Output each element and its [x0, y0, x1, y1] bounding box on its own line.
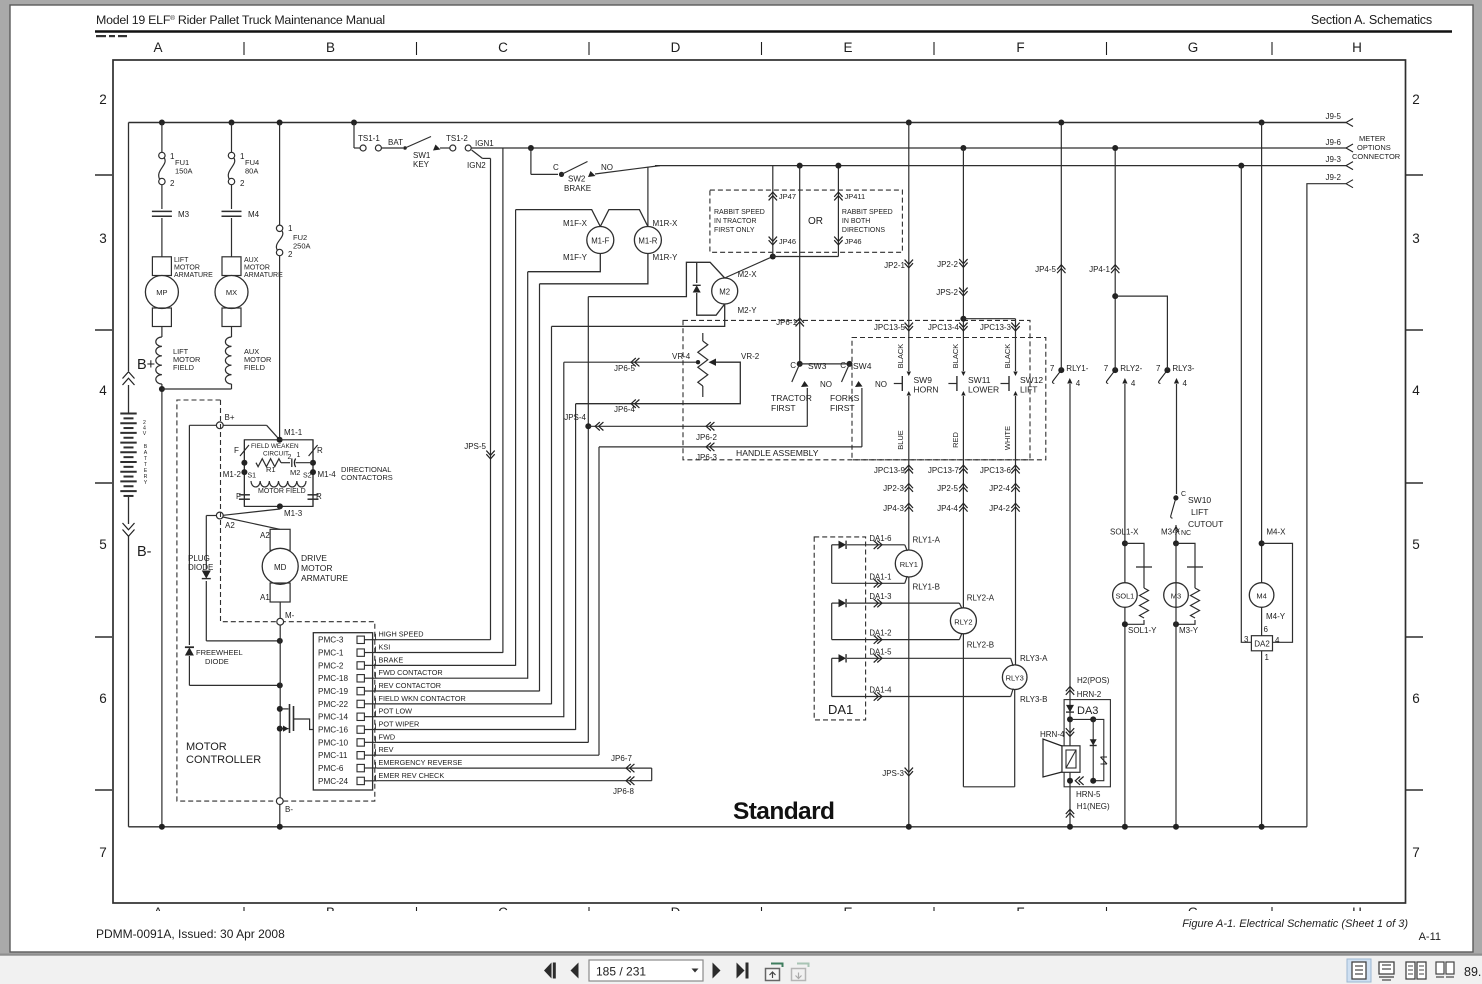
- svg-text:M4: M4: [248, 210, 260, 219]
- svg-text:B+: B+: [225, 413, 235, 422]
- svg-text:PMC-1: PMC-1: [318, 649, 344, 658]
- svg-text:H: H: [1352, 40, 1362, 55]
- svg-text:JPC13-5: JPC13-5: [874, 323, 906, 332]
- svg-text:HIGH SPEED: HIGH SPEED: [379, 630, 424, 639]
- svg-text:JP2-2: JP2-2: [937, 260, 958, 269]
- svg-text:3: 3: [1244, 635, 1249, 644]
- svg-text:DIODE: DIODE: [188, 563, 213, 572]
- svg-text:4: 4: [99, 383, 107, 398]
- svg-text:1: 1: [297, 452, 301, 459]
- svg-text:DA2: DA2: [1254, 640, 1270, 649]
- svg-text:J9-6: J9-6: [1325, 138, 1341, 147]
- svg-text:BRAKE: BRAKE: [564, 184, 591, 193]
- svg-text:RABBIT SPEED: RABBIT SPEED: [714, 209, 765, 216]
- svg-text:3: 3: [1412, 231, 1420, 246]
- svg-text:VR-2: VR-2: [741, 352, 760, 361]
- svg-text:7: 7: [99, 845, 107, 860]
- svg-text:B-: B-: [285, 805, 293, 814]
- svg-text:4: 4: [1275, 636, 1280, 645]
- svg-text:JP6-2: JP6-2: [696, 433, 717, 442]
- svg-text:|: |: [1105, 40, 1109, 55]
- svg-text:DRIVE: DRIVE: [301, 553, 327, 563]
- svg-text:OPTIONS: OPTIONS: [1357, 143, 1391, 152]
- svg-text:FIELD: FIELD: [244, 363, 265, 372]
- svg-text:M1-4: M1-4: [318, 470, 337, 479]
- svg-text:Section A. Schematics: Section A. Schematics: [1311, 13, 1432, 27]
- svg-text:POT WIPER: POT WIPER: [379, 720, 420, 729]
- svg-text:A2: A2: [260, 531, 270, 540]
- svg-text:RLY1: RLY1: [900, 560, 918, 569]
- svg-text:H2(POS): H2(POS): [1077, 676, 1110, 685]
- svg-text:HRN-5: HRN-5: [1076, 790, 1101, 799]
- svg-text:Figure A-1. Electrical Schema: Figure A-1. Electrical Schematic (Sheet …: [1182, 918, 1408, 930]
- svg-text:SOL1-Y: SOL1-Y: [1128, 626, 1157, 635]
- svg-text:JPC13-4: JPC13-4: [928, 323, 960, 332]
- svg-text:PDMM-0091A, Issued: 30 Apr 200: PDMM-0091A, Issued: 30 Apr 2008: [96, 927, 285, 941]
- svg-text:JP6-8: JP6-8: [613, 787, 634, 796]
- svg-text:2: 2: [170, 179, 175, 188]
- svg-text:B+: B+: [137, 357, 155, 373]
- svg-text:FIELD: FIELD: [173, 363, 194, 372]
- svg-text:NO: NO: [601, 163, 613, 172]
- svg-text:SW1: SW1: [413, 151, 431, 160]
- svg-text:Model 19 ELF® Rider Pallet Tru: Model 19 ELF® Rider Pallet Truck Mainten…: [96, 13, 385, 27]
- svg-text:D: D: [671, 40, 681, 55]
- svg-text:DA3: DA3: [1077, 705, 1098, 717]
- svg-text:1: 1: [288, 224, 293, 233]
- svg-text:JPS-3: JPS-3: [882, 769, 904, 778]
- svg-text:|: |: [242, 40, 246, 55]
- svg-text:HRN-4: HRN-4: [1040, 730, 1065, 739]
- svg-text:EMERGENCY REVERSE: EMERGENCY REVERSE: [379, 758, 463, 767]
- svg-text:BAT: BAT: [388, 138, 403, 147]
- svg-text:ARMATURE: ARMATURE: [174, 272, 213, 279]
- svg-text:PMC-16: PMC-16: [318, 726, 348, 735]
- svg-text:M1-3: M1-3: [284, 509, 303, 518]
- svg-text:A2: A2: [225, 521, 235, 530]
- svg-text:4: 4: [1131, 379, 1136, 388]
- svg-text:RLY2-A: RLY2-A: [967, 594, 995, 603]
- svg-text:DIRECTIONS: DIRECTIONS: [842, 227, 886, 234]
- svg-text:AUX: AUX: [244, 257, 259, 264]
- svg-text:M3: M3: [178, 210, 190, 219]
- svg-text:SW11: SW11: [968, 375, 991, 385]
- svg-text:RLY1-B: RLY1-B: [913, 583, 940, 592]
- svg-text:JP4-3: JP4-3: [883, 504, 904, 513]
- svg-text:SOL1-X: SOL1-X: [1110, 528, 1139, 537]
- svg-text:F: F: [234, 446, 239, 455]
- svg-text:M1-F: M1-F: [591, 237, 609, 246]
- svg-text:JP6-7: JP6-7: [611, 754, 632, 763]
- svg-text:METER: METER: [1359, 134, 1386, 143]
- svg-text:MOTOR: MOTOR: [301, 563, 332, 573]
- svg-text:JPC13-9: JPC13-9: [874, 466, 906, 475]
- svg-text:SW3: SW3: [808, 361, 827, 371]
- svg-text:M1R-Y: M1R-Y: [653, 253, 679, 262]
- svg-text:PMC-19: PMC-19: [318, 687, 348, 696]
- svg-text:NO: NO: [820, 380, 832, 389]
- svg-text:DA1-6: DA1-6: [869, 534, 891, 543]
- svg-text:DA1-3: DA1-3: [869, 592, 891, 601]
- svg-text:2: 2: [288, 250, 293, 259]
- svg-text:LIFT: LIFT: [1191, 507, 1208, 517]
- svg-text:7: 7: [1412, 845, 1420, 860]
- svg-text:MOTOR: MOTOR: [244, 265, 270, 272]
- svg-text:ARMATURE: ARMATURE: [301, 573, 348, 583]
- svg-text:SOL1: SOL1: [1116, 592, 1135, 601]
- svg-text:|: |: [587, 40, 591, 55]
- svg-text:RLY1-A: RLY1-A: [913, 536, 941, 545]
- svg-text:CONTACTORS: CONTACTORS: [341, 473, 393, 482]
- svg-text:DA1-5: DA1-5: [869, 647, 892, 656]
- svg-text:LIFT: LIFT: [174, 257, 189, 264]
- svg-text:7: 7: [1104, 364, 1109, 373]
- svg-text:MD: MD: [274, 563, 287, 572]
- svg-text:IN BOTH: IN BOTH: [842, 218, 870, 225]
- svg-text:JPC13-6: JPC13-6: [980, 466, 1012, 475]
- svg-text:F: F: [1016, 40, 1024, 55]
- svg-text:FORKS: FORKS: [830, 393, 860, 403]
- svg-text:NO: NO: [875, 380, 887, 389]
- svg-text:PMC-24: PMC-24: [318, 777, 348, 786]
- svg-text:RLY3-: RLY3-: [1172, 364, 1194, 373]
- svg-text:CUTOUT: CUTOUT: [1188, 519, 1223, 529]
- svg-text:|: |: [415, 40, 419, 55]
- svg-text:BLACK: BLACK: [896, 344, 905, 369]
- svg-text:ARMATURE: ARMATURE: [244, 272, 283, 279]
- svg-text:M1-2: M1-2: [223, 470, 242, 479]
- svg-text:EMER REV CHECK: EMER REV CHECK: [379, 771, 445, 780]
- svg-text:JPS-5: JPS-5: [464, 442, 486, 451]
- svg-text:SW4: SW4: [853, 361, 872, 371]
- svg-text:SW12: SW12: [1020, 375, 1043, 385]
- svg-text:HANDLE ASSEMBLY: HANDLE ASSEMBLY: [736, 448, 819, 458]
- svg-text:PMC-10: PMC-10: [318, 738, 348, 747]
- svg-text:SW2: SW2: [568, 175, 586, 184]
- svg-text:G: G: [1188, 40, 1199, 55]
- svg-text:C: C: [553, 163, 559, 172]
- svg-text:JP6-5: JP6-5: [614, 364, 635, 373]
- svg-text:M1-R: M1-R: [638, 237, 657, 246]
- svg-text:FWD: FWD: [379, 732, 396, 741]
- svg-text:C: C: [790, 361, 796, 370]
- svg-text:CONTROLLER: CONTROLLER: [186, 754, 261, 766]
- svg-text:JP4-5: JP4-5: [1035, 265, 1056, 274]
- svg-text:MOTOR FIELD: MOTOR FIELD: [258, 488, 306, 495]
- svg-text:TRACTOR: TRACTOR: [771, 393, 812, 403]
- svg-text:4: 4: [1183, 379, 1188, 388]
- svg-text:REV CONTACTOR: REV CONTACTOR: [379, 681, 442, 690]
- svg-text:RLY1-: RLY1-: [1066, 364, 1088, 373]
- svg-text:FIRST ONLY: FIRST ONLY: [714, 227, 755, 234]
- svg-text:LOWER: LOWER: [968, 385, 999, 395]
- svg-text:OR: OR: [808, 216, 823, 227]
- svg-text:E: E: [843, 40, 852, 55]
- svg-text:C: C: [840, 361, 846, 370]
- svg-text:2: 2: [99, 92, 107, 107]
- svg-text:MX: MX: [226, 288, 237, 297]
- svg-text:SW10: SW10: [1188, 495, 1211, 505]
- svg-text:B: B: [326, 40, 335, 55]
- svg-text:A: A: [153, 40, 162, 55]
- svg-text:M2-Y: M2-Y: [738, 306, 758, 315]
- svg-text:J9-3: J9-3: [1325, 155, 1341, 164]
- svg-text:MOTOR: MOTOR: [186, 741, 227, 753]
- svg-text:4: 4: [1076, 379, 1081, 388]
- svg-text:R1: R1: [266, 465, 276, 474]
- svg-text:IGN1: IGN1: [475, 139, 494, 148]
- svg-text:PMC-2: PMC-2: [318, 661, 344, 670]
- svg-text:89.: 89.: [1464, 965, 1481, 979]
- svg-text:7: 7: [1156, 364, 1161, 373]
- svg-text:RLY3: RLY3: [1006, 674, 1024, 683]
- svg-text:KEY: KEY: [413, 160, 430, 169]
- svg-text:JP6-1: JP6-1: [776, 318, 797, 327]
- svg-text:JP411: JP411: [845, 192, 866, 201]
- svg-text:A1: A1: [260, 593, 270, 602]
- svg-text:RLY3-B: RLY3-B: [1020, 695, 1047, 704]
- svg-text:M4-Y: M4-Y: [1266, 612, 1286, 621]
- svg-text:6: 6: [99, 691, 107, 706]
- svg-text:KSI: KSI: [379, 643, 391, 652]
- svg-text:DA1-2: DA1-2: [869, 629, 891, 638]
- svg-text:RLY2: RLY2: [954, 617, 972, 626]
- svg-text:JP2-4: JP2-4: [989, 484, 1010, 493]
- svg-text:H1(NEG): H1(NEG): [1077, 802, 1110, 811]
- svg-text:JP46: JP46: [779, 237, 796, 246]
- svg-text:CONNECTOR: CONNECTOR: [1352, 152, 1401, 161]
- svg-text:M1F-Y: M1F-Y: [563, 253, 588, 262]
- svg-text:JP47: JP47: [779, 192, 796, 201]
- svg-text:JP4-2: JP4-2: [989, 504, 1010, 513]
- svg-text:80A: 80A: [245, 167, 258, 176]
- svg-text:Y: Y: [144, 480, 148, 486]
- svg-text:5: 5: [99, 537, 107, 552]
- svg-text:FIELD WEAKEN: FIELD WEAKEN: [251, 443, 299, 450]
- svg-text:JPS-2: JPS-2: [936, 288, 958, 297]
- svg-text:J9-5: J9-5: [1325, 112, 1341, 121]
- svg-text:JP4-1: JP4-1: [1089, 265, 1110, 274]
- svg-text:J9-2: J9-2: [1325, 173, 1341, 182]
- svg-text:5: 5: [1412, 537, 1420, 552]
- svg-text:2: 2: [240, 179, 245, 188]
- svg-text:RLY2-: RLY2-: [1120, 364, 1142, 373]
- svg-text:|: |: [932, 40, 936, 55]
- svg-text:M1F-X: M1F-X: [563, 219, 588, 228]
- svg-text:M-: M-: [285, 611, 295, 620]
- svg-text:6: 6: [1264, 625, 1269, 634]
- svg-text:JPC13-7: JPC13-7: [928, 466, 960, 475]
- svg-text:SW9: SW9: [914, 375, 933, 385]
- svg-text:PMC-11: PMC-11: [318, 751, 348, 760]
- svg-text:JP2-3: JP2-3: [883, 484, 904, 493]
- svg-text:IGN2: IGN2: [467, 161, 486, 170]
- svg-text:M4-X: M4-X: [1266, 528, 1286, 537]
- svg-text:JP2-1: JP2-1: [884, 261, 905, 270]
- svg-text:M2: M2: [290, 468, 300, 477]
- svg-text:Standard: Standard: [733, 798, 834, 825]
- svg-text:RABBIT SPEED: RABBIT SPEED: [842, 209, 893, 216]
- svg-text:DA1-4: DA1-4: [869, 686, 892, 695]
- svg-text:BRAKE: BRAKE: [379, 655, 404, 664]
- svg-text:TS1-1: TS1-1: [358, 134, 380, 143]
- svg-text:VR-4: VR-4: [672, 352, 691, 361]
- svg-text:JP6-4: JP6-4: [614, 405, 635, 414]
- svg-text:WHITE: WHITE: [1003, 426, 1012, 450]
- svg-text:JPC13-3: JPC13-3: [980, 323, 1012, 332]
- svg-text:S2: S2: [303, 473, 312, 480]
- svg-text:C: C: [1181, 491, 1186, 498]
- svg-text:LIFT: LIFT: [1020, 385, 1037, 395]
- svg-text:PMC-18: PMC-18: [318, 674, 348, 683]
- svg-text:250A: 250A: [293, 242, 311, 251]
- svg-text:|: |: [1270, 40, 1274, 55]
- svg-text:JP4-4: JP4-4: [937, 504, 958, 513]
- svg-text:JP46: JP46: [845, 237, 862, 246]
- svg-text:M2: M2: [719, 288, 730, 297]
- svg-text:BLUE: BLUE: [896, 430, 905, 450]
- svg-text:B-: B-: [137, 544, 152, 560]
- svg-text:|: |: [760, 40, 764, 55]
- svg-text:NC: NC: [1181, 530, 1191, 537]
- svg-text:TS1-2: TS1-2: [446, 134, 468, 143]
- svg-text:JP6-3: JP6-3: [696, 453, 717, 462]
- svg-text:HORN: HORN: [914, 385, 939, 395]
- svg-text:JPS-4: JPS-4: [564, 413, 586, 422]
- svg-text:BLACK: BLACK: [1003, 344, 1012, 369]
- svg-text:FREEWHEEL: FREEWHEEL: [196, 648, 243, 657]
- svg-text:RLY2-B: RLY2-B: [967, 641, 994, 650]
- svg-text:PLUG: PLUG: [188, 554, 210, 563]
- svg-text:FIRST: FIRST: [830, 403, 855, 413]
- svg-text:RLY3-A: RLY3-A: [1020, 654, 1048, 663]
- svg-text:MP: MP: [156, 288, 167, 297]
- svg-text:FWD CONTACTOR: FWD CONTACTOR: [379, 668, 443, 677]
- svg-text:V: V: [143, 431, 147, 437]
- svg-text:M1R-X: M1R-X: [653, 219, 679, 228]
- svg-text:BLACK: BLACK: [951, 344, 960, 369]
- svg-text:REV: REV: [379, 745, 394, 754]
- svg-text:2: 2: [288, 454, 292, 461]
- svg-text:FIRST: FIRST: [771, 403, 796, 413]
- svg-text:M3-Y: M3-Y: [1179, 626, 1199, 635]
- svg-text:S1: S1: [248, 473, 257, 480]
- svg-text:M1-1: M1-1: [284, 428, 303, 437]
- svg-text:RED: RED: [951, 432, 960, 448]
- svg-text:4: 4: [1412, 383, 1420, 398]
- svg-text:IN TRACTOR: IN TRACTOR: [714, 218, 757, 225]
- svg-text:M3-X: M3-X: [1161, 528, 1181, 537]
- svg-text:DA1-1: DA1-1: [869, 572, 891, 581]
- svg-text:FIELD WKN CONTACTOR: FIELD WKN CONTACTOR: [379, 694, 466, 703]
- svg-text:150A: 150A: [175, 167, 193, 176]
- svg-text:JP2-5: JP2-5: [937, 484, 958, 493]
- svg-text:1: 1: [1265, 653, 1270, 662]
- svg-text:PMC-6: PMC-6: [318, 764, 344, 773]
- svg-text:PMC-22: PMC-22: [318, 700, 348, 709]
- svg-text:6: 6: [1412, 691, 1420, 706]
- svg-text:7: 7: [1050, 364, 1055, 373]
- svg-text:C: C: [498, 40, 508, 55]
- svg-text:PMC-14: PMC-14: [318, 713, 348, 722]
- svg-text:PMC-3: PMC-3: [318, 636, 344, 645]
- svg-text:HRN-2: HRN-2: [1077, 690, 1102, 699]
- svg-text:3: 3: [99, 231, 107, 246]
- svg-text:DA1: DA1: [828, 702, 853, 717]
- svg-text:DIODE: DIODE: [205, 657, 229, 666]
- svg-text:POT LOW: POT LOW: [379, 707, 413, 716]
- svg-text:2: 2: [1412, 92, 1420, 107]
- svg-text:A-11: A-11: [1419, 931, 1441, 943]
- svg-text:MOTOR: MOTOR: [174, 265, 200, 272]
- svg-text:CIRCUIT: CIRCUIT: [263, 451, 289, 458]
- svg-text:M4: M4: [1256, 592, 1266, 601]
- svg-text:R: R: [317, 446, 323, 455]
- svg-text:185 / 231: 185 / 231: [596, 965, 646, 979]
